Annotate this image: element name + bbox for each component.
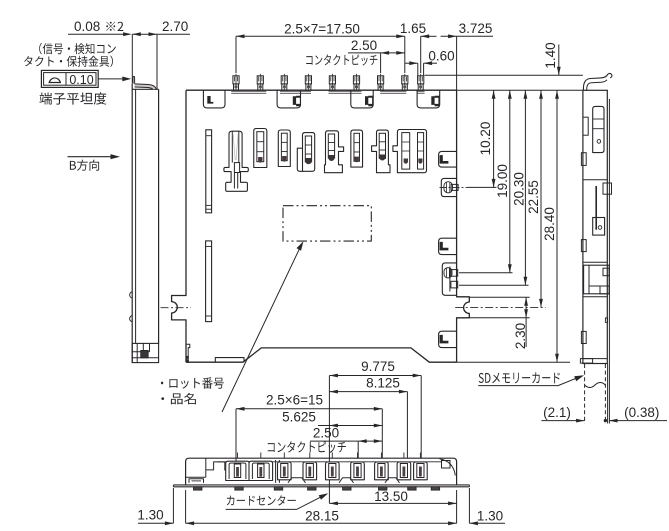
card-detect spring contact (lower)	[442, 263, 456, 295]
leader to marking area	[222, 243, 302, 412]
svg-text:1.30: 1.30	[477, 509, 503, 524]
bottom contact 1	[226, 461, 250, 480]
main view body outline	[186, 89, 457, 91]
text jp9	[227, 495, 296, 505]
bottom contact 2 rear stub	[260, 453, 262, 459]
text jp7	[306, 54, 377, 65]
svg-text:2.5×6=15: 2.5×6=15	[266, 393, 323, 408]
pin 7	[380, 74, 382, 90]
flatness feature control frame	[41, 70, 98, 87]
bottom view body outline	[186, 458, 457, 485]
contact 2	[254, 129, 267, 168]
pin 5	[331, 74, 333, 90]
pocket 2 latch mark	[293, 96, 301, 107]
lot number / product name marking area (phantom rect)	[283, 206, 371, 241]
bottom view separating wall	[275, 460, 277, 483]
solder feet	[194, 487, 202, 490]
right view right bump	[605, 318, 607, 323]
contact 5 (with right bump)	[325, 131, 344, 173]
mounting flange	[173, 484, 469, 486]
SD memory card (phantom, inserted)	[584, 364, 586, 424]
svg-text:8.125: 8.125	[366, 376, 400, 391]
extension line body bottom to right	[457, 361, 570, 363]
bottom view right corner arc	[440, 459, 456, 476]
svg-text:0.08: 0.08	[74, 19, 100, 34]
bottom view inner edge line	[217, 461, 441, 463]
bottom view left step	[206, 462, 225, 471]
pin 2	[259, 74, 261, 90]
right notch centerline (ref for 22.55)	[455, 306, 546, 308]
main view left edge with card-stop notch	[172, 90, 186, 362]
write-protect spring contact (upper)	[441, 178, 456, 196]
pin 9	[420, 74, 422, 90]
side view left-edge bump lower	[130, 316, 133, 322]
svg-text:13.50: 13.50	[374, 489, 408, 504]
bottom contact 2	[249, 461, 273, 480]
extension line contact tip	[131, 34, 133, 83]
right view divider 3	[583, 296, 607, 298]
svg-text:0.60: 0.60	[428, 49, 454, 64]
right side view outer shell line	[608, 99, 610, 364]
text note *2	[106, 22, 123, 31]
svg-text:9.775: 9.775	[361, 359, 395, 374]
side view solder foot block	[132, 343, 158, 362]
text jp6	[161, 393, 196, 405]
pocket 3 latch mark	[365, 96, 373, 107]
svg-text:22.55: 22.55	[526, 180, 541, 214]
bottom contact 8	[397, 462, 411, 480]
bottom contact 1 rear stub	[237, 453, 239, 459]
right view left tab 4	[581, 331, 586, 343]
right view mid divider	[583, 179, 607, 181]
bottom contact 7 rear stub	[380, 453, 382, 459]
svg-text:10.20: 10.20	[478, 122, 493, 156]
right-edge bracket F3	[439, 238, 457, 254]
right-edge bracket F6	[439, 331, 457, 347]
shell lines below	[607, 364, 609, 424]
svg-text:3.725: 3.725	[459, 21, 493, 36]
interior guide bar upper	[206, 130, 212, 213]
contact 8 (double, with left bump)	[393, 130, 427, 173]
pin 8	[404, 74, 406, 90]
text jp10	[479, 372, 560, 383]
svg-text:2.50: 2.50	[351, 38, 377, 53]
pin 1	[235, 74, 237, 90]
bottom contact 6 rear stub	[357, 453, 359, 459]
svg-text:2.50: 2.50	[313, 426, 339, 441]
text jp3	[39, 92, 106, 104]
svg-text:2.70: 2.70	[162, 19, 188, 34]
card center extension line	[328, 376, 330, 504]
svg-text:19.00: 19.00	[495, 164, 510, 198]
bottom edge notch box	[215, 358, 244, 363]
right view mid-right block	[603, 183, 612, 194]
svg-text:1.40: 1.40	[543, 42, 558, 68]
svg-text:28.40: 28.40	[542, 207, 557, 241]
bottom contact 5	[326, 462, 340, 480]
interior guide bar lower	[206, 241, 212, 322]
side view contact tip (flat tongue with stub)	[133, 76, 135, 83]
extension line body top to side view	[457, 89, 583, 91]
main view bottom-left corner step	[186, 344, 190, 356]
top-edge pocket 2	[277, 90, 300, 108]
left notch centerline	[161, 307, 192, 309]
svg-text:1.30: 1.30	[137, 508, 163, 523]
right-edge bracket F1	[439, 151, 457, 167]
right view bottom feet	[583, 358, 607, 360]
right view left tab 3	[581, 240, 586, 252]
contact 6	[351, 130, 363, 167]
svg-text:1.65: 1.65	[400, 21, 426, 36]
bottom contact 6	[351, 462, 365, 480]
contact 3	[278, 130, 290, 167]
contact 7 (with left bump)	[372, 130, 390, 173]
bottom contact 4	[303, 462, 317, 480]
bottom contact 7	[375, 462, 389, 480]
main view bottom edge with raised center	[186, 348, 457, 362]
left side view outline	[131, 84, 133, 363]
top-edge pocket 3	[351, 90, 373, 108]
bottom contact 8 rear stub	[403, 453, 405, 459]
bottom contact 3 rear stub	[283, 453, 285, 459]
bottom contact 4 rear stub	[309, 453, 311, 459]
right view mid slot	[593, 218, 605, 236]
bottom contact 9 rear stub	[419, 453, 421, 459]
pocket 1 latch mark	[207, 96, 213, 104]
text jp8	[268, 441, 346, 453]
bottom view left corner box	[205, 458, 207, 477]
svg-text:2.5×7=17.50: 2.5×7=17.50	[284, 21, 360, 36]
extension line side view right face	[156, 34, 158, 89]
bottom contact 9	[414, 462, 428, 480]
right view lower block	[584, 265, 610, 294]
bottom view inter-contact humps	[288, 478, 306, 483]
contact 4 (with left flange)	[303, 133, 315, 172]
bottom contact 3	[278, 462, 292, 480]
svg-text:20.30: 20.30	[512, 172, 527, 206]
flatness symbol (dome)	[49, 78, 62, 83]
leader from frame to contact tip	[98, 78, 127, 80]
pin 4	[307, 74, 309, 90]
side view left-edge bump upper	[130, 292, 133, 298]
text jp4	[70, 160, 99, 171]
right view upper-left tab	[583, 117, 588, 135]
contact 1 (long switch contact)	[224, 131, 248, 191]
top-edge pocket 4	[417, 90, 440, 108]
text jp5	[161, 377, 224, 388]
text jp1	[39, 43, 116, 54]
extension line pin-tip level to side view	[425, 74, 583, 76]
right view left tab 2	[581, 153, 586, 166]
B-direction arrow	[68, 156, 113, 158]
pin 3	[283, 74, 285, 90]
right side view outline	[583, 90, 607, 363]
card break wave	[585, 383, 606, 388]
bottom contact 5 rear stub	[331, 453, 333, 459]
right view divider 2	[583, 261, 607, 263]
svg-text:(2.1): (2.1)	[543, 405, 571, 420]
top-edge pocket 1	[203, 90, 225, 108]
right view dark rib	[595, 186, 597, 230]
pocket 4 latch mark	[431, 96, 439, 107]
right side view top curl	[583, 73, 612, 90]
main view right edge with card-stop notch	[457, 90, 470, 362]
svg-text:(0.38): (0.38)	[624, 405, 659, 420]
text jp2	[24, 56, 113, 67]
svg-text:0.10: 0.10	[69, 73, 93, 87]
right view upper latch slot	[593, 106, 604, 152]
svg-text:5.625: 5.625	[282, 410, 316, 425]
pin tie bars	[231, 90, 266, 92]
pin 6	[356, 74, 358, 90]
svg-text:28.15: 28.15	[305, 509, 339, 524]
